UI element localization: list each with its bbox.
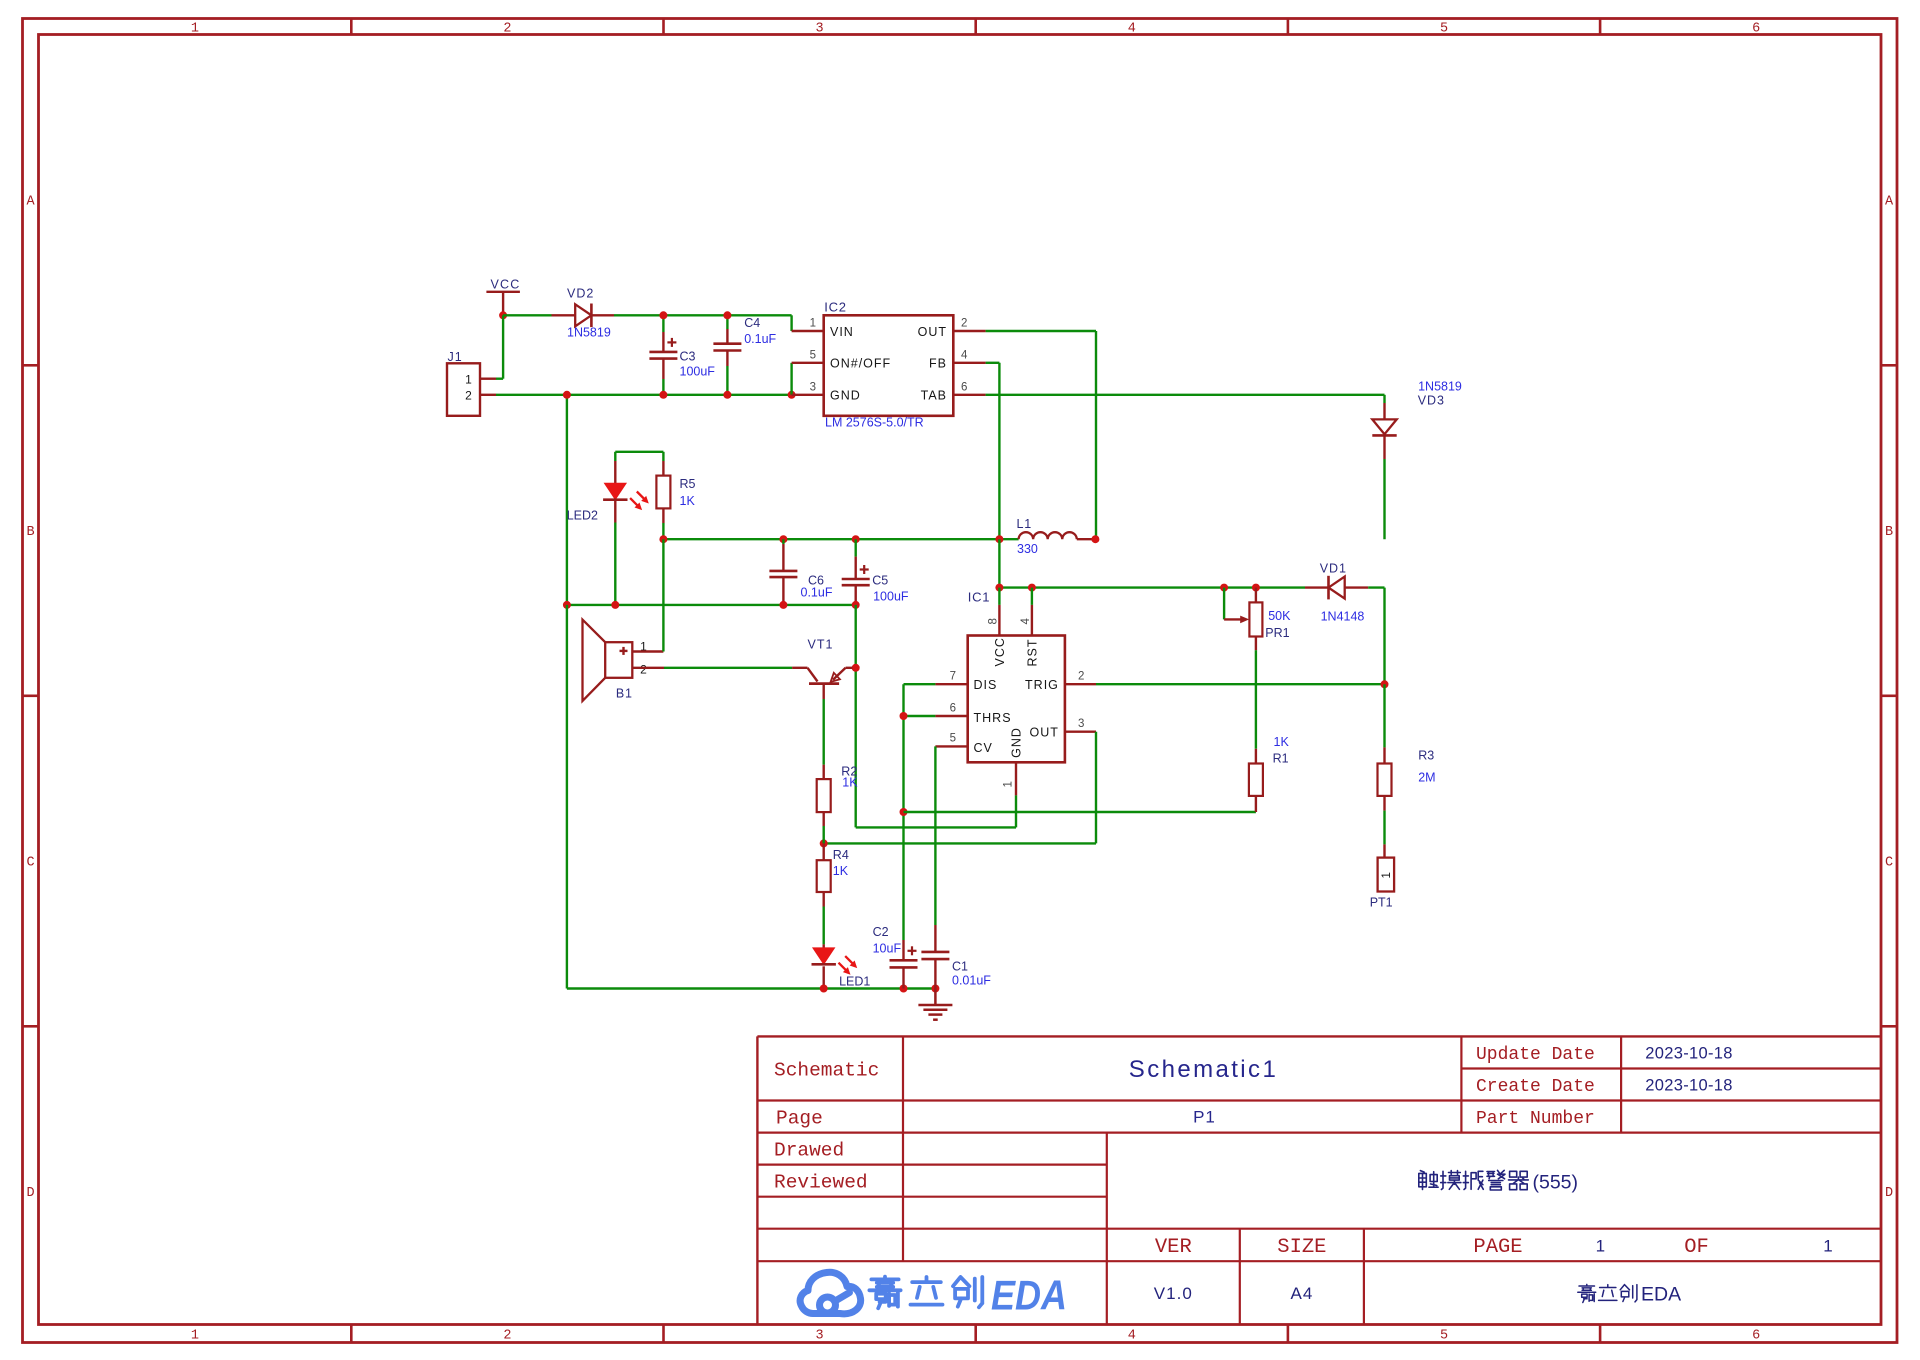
- svg-text:5: 5: [810, 349, 816, 361]
- svg-text:TRIG: TRIG: [1025, 678, 1059, 692]
- svg-text:330: 330: [1017, 542, 1038, 556]
- svg-text:0.1uF: 0.1uF: [744, 332, 776, 346]
- svg-text:8: 8: [988, 618, 1000, 624]
- svg-text:A: A: [26, 194, 35, 209]
- svg-text:GND: GND: [1010, 727, 1024, 758]
- svg-text:Update Date: Update Date: [1476, 1045, 1595, 1065]
- svg-text:C4: C4: [744, 316, 760, 330]
- svg-text:THRS: THRS: [974, 711, 1012, 725]
- svg-text:CV: CV: [974, 741, 993, 755]
- svg-text:B: B: [26, 525, 34, 540]
- svg-text:3: 3: [810, 381, 816, 393]
- svg-text:VER: VER: [1155, 1236, 1192, 1259]
- svg-text:1K: 1K: [1274, 735, 1290, 749]
- svg-text:TAB: TAB: [921, 389, 947, 403]
- svg-text:VIN: VIN: [830, 325, 854, 339]
- svg-text:LM 2576S-5.0/TR: LM 2576S-5.0/TR: [825, 416, 924, 430]
- svg-text:Page: Page: [776, 1107, 823, 1129]
- svg-text:C1: C1: [952, 960, 968, 974]
- svg-text:GND: GND: [830, 389, 861, 403]
- svg-text:100uF: 100uF: [873, 590, 909, 604]
- svg-text:1: 1: [1381, 872, 1393, 878]
- svg-text:SIZE: SIZE: [1277, 1236, 1326, 1259]
- svg-text:RST: RST: [1025, 639, 1039, 667]
- svg-text:1K: 1K: [680, 494, 696, 508]
- svg-text:1: 1: [191, 1329, 199, 1344]
- svg-text:FB: FB: [929, 357, 947, 371]
- svg-text:1: 1: [1003, 781, 1015, 787]
- svg-text:LED2: LED2: [567, 509, 598, 523]
- svg-text:VCC: VCC: [993, 637, 1007, 666]
- svg-text:4: 4: [961, 349, 968, 361]
- svg-text:A4: A4: [1291, 1284, 1314, 1303]
- svg-text:2: 2: [1078, 671, 1084, 683]
- svg-text:4: 4: [1128, 1329, 1136, 1344]
- svg-text:6: 6: [1752, 1329, 1760, 1344]
- svg-text:Schematic1: Schematic1: [1129, 1056, 1278, 1083]
- svg-text:1K: 1K: [833, 864, 849, 878]
- svg-text:R4: R4: [833, 848, 849, 862]
- svg-text:2023-10-18: 2023-10-18: [1645, 1076, 1732, 1094]
- svg-text:C5: C5: [872, 574, 888, 588]
- svg-text:V1.0: V1.0: [1154, 1284, 1193, 1303]
- svg-text:OUT: OUT: [918, 325, 947, 339]
- svg-text:PAGE: PAGE: [1473, 1236, 1522, 1259]
- svg-text:2: 2: [465, 388, 472, 402]
- svg-text:5: 5: [1440, 22, 1448, 37]
- svg-text:10uF: 10uF: [873, 942, 902, 956]
- svg-text:1: 1: [1823, 1237, 1832, 1256]
- svg-text:VCC: VCC: [491, 278, 521, 292]
- svg-text:1: 1: [810, 318, 816, 330]
- svg-text:Create Date: Create Date: [1476, 1077, 1595, 1097]
- svg-text:R5: R5: [680, 477, 696, 491]
- svg-text:(555): (555): [1533, 1172, 1579, 1194]
- svg-text:P1: P1: [1193, 1108, 1216, 1127]
- svg-text:R1: R1: [1273, 752, 1289, 766]
- svg-text:C: C: [1885, 856, 1893, 871]
- svg-text:50K: 50K: [1268, 609, 1291, 623]
- svg-text:PR1: PR1: [1265, 626, 1289, 640]
- svg-text:Schematic: Schematic: [774, 1059, 879, 1081]
- svg-text:EDA: EDA: [991, 1272, 1067, 1319]
- svg-text:PT1: PT1: [1370, 896, 1393, 910]
- svg-text:B: B: [1885, 525, 1893, 540]
- svg-text:6: 6: [961, 381, 967, 393]
- svg-text:4: 4: [1020, 618, 1032, 625]
- svg-text:VT1: VT1: [808, 638, 834, 652]
- svg-text:ON#/OFF: ON#/OFF: [830, 357, 891, 371]
- svg-text:Drawed: Drawed: [774, 1139, 844, 1161]
- svg-text:7: 7: [950, 671, 956, 683]
- svg-text:1: 1: [1596, 1237, 1605, 1256]
- svg-text:5: 5: [1440, 1329, 1448, 1344]
- svg-text:5: 5: [950, 733, 956, 745]
- svg-text:100uF: 100uF: [680, 365, 716, 379]
- svg-text:6: 6: [950, 702, 956, 714]
- svg-text:B1: B1: [616, 687, 633, 701]
- svg-text:2M: 2M: [1418, 771, 1435, 785]
- svg-text:OUT: OUT: [1030, 726, 1059, 740]
- svg-text:EDA: EDA: [1641, 1284, 1681, 1306]
- svg-text:3: 3: [816, 22, 824, 37]
- svg-text:C3: C3: [680, 350, 696, 364]
- svg-text:IC2: IC2: [824, 300, 847, 315]
- svg-text:2: 2: [503, 22, 511, 37]
- svg-text:2: 2: [640, 662, 647, 676]
- svg-text:4: 4: [1128, 22, 1136, 37]
- svg-text:C2: C2: [873, 925, 889, 939]
- svg-text:VD1: VD1: [1320, 562, 1347, 576]
- svg-text:Reviewed: Reviewed: [774, 1172, 868, 1194]
- svg-text:1: 1: [465, 372, 472, 386]
- svg-text:3: 3: [816, 1329, 824, 1344]
- svg-text:DIS: DIS: [974, 678, 998, 692]
- svg-text:IC1: IC1: [968, 590, 991, 605]
- svg-text:1N4148: 1N4148: [1321, 610, 1365, 624]
- svg-text:L1: L1: [1017, 517, 1033, 531]
- svg-text:A: A: [1885, 194, 1894, 209]
- svg-text:OF: OF: [1684, 1236, 1709, 1259]
- svg-text:J1: J1: [448, 350, 463, 364]
- svg-text:D: D: [1885, 1186, 1893, 1201]
- svg-text:3: 3: [1078, 718, 1084, 730]
- svg-text:0.1uF: 0.1uF: [801, 586, 833, 600]
- svg-text:R3: R3: [1418, 749, 1434, 763]
- svg-text:LED1: LED1: [839, 975, 870, 989]
- svg-text:1N5819: 1N5819: [1418, 380, 1462, 394]
- svg-text:C: C: [26, 856, 34, 871]
- svg-text:D: D: [26, 1186, 34, 1201]
- svg-text:2023-10-18: 2023-10-18: [1645, 1044, 1732, 1062]
- svg-text:VD2: VD2: [567, 287, 594, 301]
- svg-text:1: 1: [191, 22, 199, 37]
- svg-text:Part Number: Part Number: [1476, 1109, 1595, 1129]
- svg-text:2: 2: [961, 318, 967, 330]
- svg-text:VD3: VD3: [1418, 394, 1445, 408]
- svg-text:0.01uF: 0.01uF: [952, 974, 991, 988]
- svg-text:1K: 1K: [842, 776, 858, 790]
- svg-text:2: 2: [503, 1329, 511, 1344]
- svg-text:1N5819: 1N5819: [567, 326, 611, 340]
- svg-text:6: 6: [1752, 22, 1760, 37]
